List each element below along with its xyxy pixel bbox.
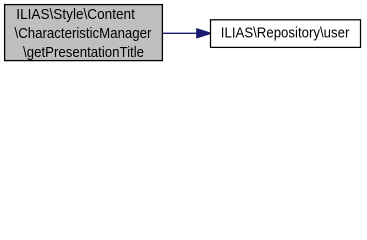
- svg-text:ILIAS\Style\Content: ILIAS\Style\Content: [16, 7, 135, 23]
- svg-text:ILIAS\Repository\user: ILIAS\Repository\user: [221, 25, 350, 41]
- node ILIAS\Style\Content\CharacteristicManager\getPresentationTitle (caller, grey filled box): [5, 5, 163, 61]
- arrowhead: [196, 28, 210, 39]
- svg-text:\CharacteristicManager: \CharacteristicManager: [15, 26, 152, 42]
- svg-text:\getPresentationTitle: \getPresentationTitle: [23, 45, 144, 61]
- wire: call edge from getPresentationTitle to user (midnight blue): [163, 28, 211, 39]
- node ILIAS\Repository\user (callee, white box): [211, 20, 361, 48]
